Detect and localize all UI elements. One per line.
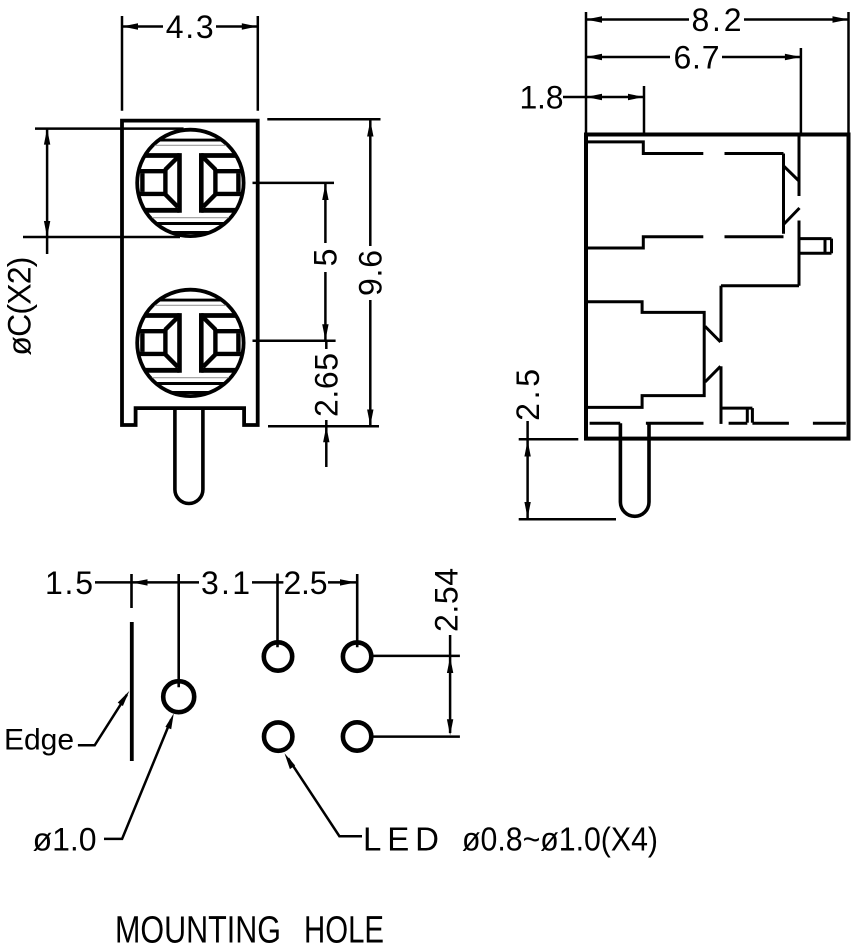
side view lead pin (620, 423, 649, 516)
LED hole r2c2 (343, 722, 371, 750)
side view rear peg (800, 239, 832, 254)
side view lower lead step (721, 408, 752, 423)
svg-text:HOLE: HOLE (304, 910, 384, 952)
svg-text:2.5: 2.5 (284, 565, 328, 601)
svg-text:1.8: 1.8 (520, 80, 564, 116)
mounting dimension row (95, 581, 357, 584)
front view body (122, 121, 258, 425)
leader phi1.0 (104, 719, 171, 839)
dimension 1.8 (563, 86, 644, 135)
side view lower LED outline (588, 302, 721, 424)
LED lens 1 (136, 130, 244, 236)
svg-text:6.7: 6.7 (674, 40, 720, 76)
dimension 8.2 (586, 12, 849, 135)
tick hole1 leader (177, 574, 180, 687)
dimension 2.54 (373, 635, 460, 737)
LED hole r2c1 (264, 722, 292, 750)
dimension 2.65 (253, 341, 380, 467)
dimension 2.5 side (519, 421, 616, 519)
dimension 6.7 (586, 48, 801, 135)
svg-text:8.2: 8.2 (692, 2, 742, 38)
front view lead pin (175, 408, 203, 503)
LED hole r1c2 (343, 642, 371, 670)
tick led col1 leader (276, 574, 279, 648)
side view base flange line (590, 422, 846, 425)
LED lens 2 (136, 290, 244, 396)
svg-text:2.65: 2.65 (309, 353, 345, 417)
svg-text:ø1.0: ø1.0 (33, 822, 97, 858)
PCB edge line (130, 622, 134, 761)
LED hole r1c1 (264, 642, 292, 670)
tick edge (130, 574, 133, 608)
svg-text:9.6: 9.6 (353, 250, 389, 296)
dimension 9.6 (267, 119, 380, 425)
side view upper lead with break (721, 135, 800, 343)
side view body (586, 135, 849, 439)
tick led col2 leader (356, 574, 359, 647)
svg-text:MOUNTING: MOUNTING (115, 910, 281, 952)
leader Edge (78, 695, 127, 746)
svg-text:ø0.8~ø1.0(X4): ø0.8~ø1.0(X4) (462, 820, 658, 857)
svg-text:øC(X2): øC(X2) (2, 257, 38, 356)
dimension 4.3 (122, 16, 258, 111)
svg-text:4.3: 4.3 (166, 9, 214, 45)
svg-text:5: 5 (308, 249, 344, 267)
dimension 5 (253, 183, 335, 341)
side view upper LED outline (588, 142, 784, 248)
mounting hole 1.0 (163, 681, 194, 712)
svg-text:1.5: 1.5 (45, 565, 93, 601)
svg-text:LED: LED (363, 820, 439, 857)
svg-text:2.5: 2.5 (510, 369, 546, 421)
svg-text:Edge: Edge (4, 724, 74, 757)
leader LED (288, 758, 362, 836)
svg-text:2.54: 2.54 (428, 568, 464, 632)
svg-text:3.1: 3.1 (201, 565, 250, 601)
dimension phiC(X2) (23, 129, 184, 254)
